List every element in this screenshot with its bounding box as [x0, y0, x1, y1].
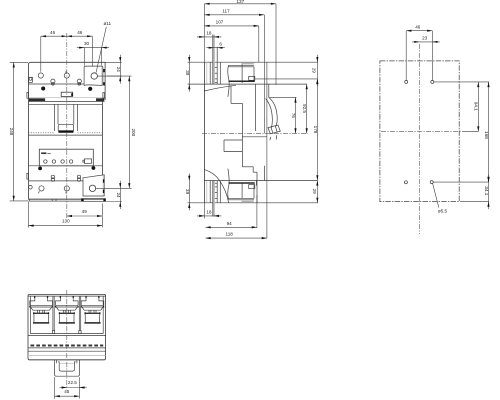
front view: upper terminal screw oval right — [77, 79, 81, 83]
front view: screw dot right — [88, 87, 92, 91]
svg-text:130: 130 — [62, 219, 70, 224]
front view: connector box inner shade — [101, 67, 103, 86]
bottom view: pole 1 hat corner nubs — [34, 296, 35, 298]
svg-text:22.5: 22.5 — [68, 380, 77, 385]
front view: lower-center terminal circle — [64, 186, 69, 191]
bottom view: vertical centerline — [66, 290, 68, 390]
side view: top lug cable squiggle — [228, 65, 229, 97]
front view: extension line 130 left — [28, 202, 30, 228]
drill plan: top hole row extension — [434, 81, 489, 83]
side view: dimension 92.5 — [306, 84, 308, 133]
bottom view: pole 2 lug trapezoid — [56, 307, 77, 310]
front view: trip unit label dashes — [41, 152, 46, 154]
side view: projection line y84 — [188, 83, 307, 85]
svg-text:46: 46 — [77, 30, 83, 35]
side view: bottom case diagonal — [204, 170, 228, 203]
drill plan: dimension 34.1 — [488, 175, 490, 210]
side view: bottom lug clamp block — [249, 185, 255, 189]
front view: dimension 200 — [128, 76, 130, 188]
side view: dimension 107 — [204, 25, 258, 27]
front view: handle recess right walls — [77, 104, 79, 131]
side view: extension line 76 — [270, 96, 297, 98]
bottom view: pole 1 terminal plate lines — [30, 304, 53, 306]
front view: escutcheon bottom line — [29, 134, 103, 136]
bottom view: pole 3 lug trapezoid — [82, 307, 103, 310]
side view: case foot mark — [255, 180, 257, 185]
front view: dimension 49 — [67, 215, 103, 217]
svg-text:24: 24 — [116, 67, 121, 73]
front view: nameplate rectangle — [61, 92, 72, 96]
drill plan: vertical centerline — [419, 44, 421, 234]
bottom view: mid flange line — [28, 350, 106, 352]
side view: dimension 76 — [295, 97, 297, 133]
side view: handle arc inner — [266, 99, 273, 129]
side view: escutcheon front — [268, 84, 270, 97]
drill plan: hole extension lines — [405, 31, 407, 81]
bottom view: outer body rectangle — [28, 294, 106, 359]
front view: dimension 24 bottom right — [119, 181, 121, 209]
drill plan: dimension 46 — [406, 30, 432, 32]
side view: cover front face — [263, 15, 265, 134]
front view: escutcheon top line — [29, 103, 103, 105]
svg-text:45: 45 — [64, 389, 70, 394]
svg-text:107: 107 — [216, 20, 224, 25]
side view: dimension 39 bottom — [188, 174, 190, 211]
front view: bottom foot strip — [30, 199, 82, 201]
bottom view: tongue extension lines — [54, 377, 56, 398]
side view: bottom bracket inner lines — [206, 181, 208, 203]
bottom view: slot inner ledge — [60, 362, 74, 364]
front view: dimension 30 — [77, 47, 109, 49]
side view: back edge — [203, 62, 205, 203]
side view: bottom lug cable squiggle — [228, 169, 229, 200]
front view: extension line 49 right — [101, 204, 103, 228]
front view: left edge screw circle — [29, 185, 33, 189]
svg-text:49: 49 — [82, 209, 88, 214]
bottom view: dimension 22.5 — [59, 387, 87, 389]
side view: case front face 118 — [266, 62, 268, 238]
front view: upper-center terminal circle — [64, 73, 69, 78]
side view: dimension 117 — [204, 14, 264, 16]
svg-text:30: 30 — [84, 41, 90, 46]
side view: bracket ladder bottom — [216, 181, 218, 203]
side view: dimension 178 — [316, 79, 318, 180]
drill plan: dimension 168 — [488, 82, 490, 182]
side view: dimension 18 bottom — [197, 215, 221, 217]
side view: top lug plate lines — [229, 65, 255, 67]
side view: handle grip hatch — [271, 127, 273, 133]
front view: bottom box flange marks — [103, 179, 105, 182]
side view: extension line 107 — [258, 26, 260, 62]
side view: handle grip — [268, 125, 280, 134]
bottom view: pole 1 screw stem — [38, 310, 45, 313]
front view: left edge outer tab upper — [27, 93, 29, 99]
bottom view: right wall line — [102, 296, 104, 334]
drill plan: top-left hole — [405, 80, 408, 83]
front view: trip unit box — [39, 149, 93, 166]
front view: toggle handle grip — [58, 124, 73, 131]
drill plan: dimension 94.1 — [477, 82, 479, 132]
drill plan: horizontal centerline — [381, 131, 462, 133]
svg-text:39: 39 — [185, 70, 190, 76]
bottom view: pole barrier left pair — [52, 296, 54, 330]
front view: bottom right foot — [82, 199, 106, 202]
front view: right edge mid segment — [101, 100, 103, 175]
side view: DIN screw shaft bottom — [213, 181, 215, 217]
front view: screw dot left — [41, 87, 45, 91]
bottom view: handle slot — [58, 362, 76, 371]
side view: top lug clamp block — [249, 76, 255, 80]
bottom view: pole 1 lug trapezoid — [31, 307, 52, 310]
bottom view: lower flange line — [28, 354, 106, 356]
svg-text:46: 46 — [50, 30, 56, 35]
bottom view: pole 3 terminal hat — [81, 296, 104, 305]
svg-text:137: 137 — [236, 0, 244, 4]
front view: trip unit adjustment dial 4 — [69, 160, 72, 163]
side view: case seam step bottom — [242, 166, 253, 168]
side view: bracket ladder top — [216, 47, 218, 84]
svg-text:23: 23 — [422, 36, 428, 41]
side view: top terminal extension line — [255, 78, 317, 80]
side view: dimension 137 — [204, 3, 276, 5]
front view: breaker body outline — [29, 62, 106, 199]
bottom view: pole 2 screw stem — [63, 310, 70, 313]
bottom view: pole 1 screw block — [33, 315, 35, 322]
front view: dimension 130 — [29, 225, 103, 227]
front view: trip unit corner screws — [38, 167, 42, 171]
bottom view: flange line — [28, 335, 106, 337]
front view: trip unit test plug — [84, 159, 91, 163]
front view: left edge outer tab lower — [27, 173, 29, 179]
side view: bottom lug body — [241, 183, 243, 198]
front view: extension lines for 30 — [83, 48, 85, 66]
side view: extension line 137 — [275, 4, 277, 85]
front view: trip unit adjustment dial 1 — [44, 160, 47, 163]
side view: case seam tab — [224, 139, 242, 141]
front view: handle recess left walls — [54, 104, 56, 131]
svg-text:168: 168 — [484, 131, 489, 139]
side view: back mounting extension line — [203, 4, 205, 62]
drill plan: bottom-left hole — [404, 181, 407, 184]
svg-text:76: 76 — [291, 113, 296, 119]
side view: bottom lug gray cap — [241, 201, 253, 203]
front view: left edge upper tab — [29, 77, 33, 82]
svg-text:46: 46 — [415, 25, 421, 30]
side view: bracket outer vertical top — [219, 62, 221, 84]
front view: trip unit lower line — [29, 165, 103, 167]
side view: dimension 29 bottom — [316, 180, 318, 202]
front view: trip unit adjustment dial 2 — [52, 160, 55, 163]
svg-text:94: 94 — [227, 221, 233, 226]
bottom view: pole 2 terminal plate lines — [56, 304, 79, 306]
front view: dimension 46 right — [67, 35, 93, 37]
side view: extension 94 118 — [256, 195, 258, 228]
bottom view: pole 3 hat corner nubs — [85, 296, 86, 298]
svg-text:ø5.5: ø5.5 — [438, 208, 448, 213]
bottom view: lower inner line — [30, 333, 103, 335]
side view: top lug body — [241, 64, 243, 83]
front view: SIEMENS label band — [29, 97, 105, 99]
side view: dimension 118 — [206, 237, 267, 239]
side view: case lower front vertical — [264, 166, 266, 181]
drill plan: centerline extension right — [462, 131, 478, 133]
svg-text:248: 248 — [9, 128, 14, 136]
side view: top lug gray cap — [241, 63, 253, 65]
front view: dimension 248 — [13, 62, 15, 201]
front view: upper terminal screw oval left — [51, 79, 55, 83]
side view: handle grip spurs — [270, 137, 271, 140]
svg-text:6: 6 — [219, 41, 222, 46]
side view: top bracket inner lines — [206, 62, 208, 84]
svg-text:118: 118 — [226, 232, 234, 237]
side view: DIN screw shaft top — [213, 35, 215, 85]
bottom view: vent slot dashes — [31, 345, 104, 347]
side view: top case diagonal — [204, 85, 236, 91]
front view: bottom-right connector box — [83, 175, 104, 196]
front view: terminal hole circle 11mm — [91, 73, 97, 79]
front view: dotted off-position line — [29, 132, 55, 134]
svg-text:117: 117 — [222, 9, 230, 14]
side view: horizontal centerline — [202, 132, 308, 134]
bottom view: pole 1 clamp top bar — [34, 313, 49, 314]
bottom view: handle tongue — [55, 360, 80, 376]
svg-text:29: 29 — [312, 68, 317, 74]
front view: trip unit adjustment dial 3 — [61, 160, 64, 163]
drill plan: outline dash-dot rectangle — [380, 61, 459, 202]
side view: bracket outer vertical bottom — [219, 181, 221, 203]
front view: lower-left terminal circle — [39, 186, 44, 191]
front view: top right extension lines for 24 — [105, 61, 122, 63]
side view: case line below handle — [242, 136, 267, 138]
bottom view: pole 2 hat corner nubs — [60, 296, 61, 298]
bottom view: top inner line — [28, 295, 106, 297]
svg-text:18: 18 — [206, 31, 212, 36]
bottom view: bottom edge emphasis — [28, 359, 105, 361]
svg-text:18: 18 — [206, 210, 212, 215]
drill plan: bottom hole row extension — [433, 181, 489, 183]
front view: lower terminal screw oval right — [77, 175, 80, 178]
bottom view: pole 1 terminal hat — [30, 296, 53, 305]
bottom view: pole 2 clamp top bar — [59, 313, 74, 314]
side view: bottom lug separation thick line — [229, 182, 255, 184]
front view: bottom box inner shade — [102, 175, 104, 195]
bottom view: pole 3 terminal plate lines — [81, 304, 104, 306]
bottom view: pole 3 screw stem — [89, 310, 96, 313]
bottom view: pole barrier right pair — [78, 296, 80, 330]
side view: top lug separation thick line — [229, 80, 255, 82]
svg-text:39: 39 — [185, 189, 190, 195]
front view: terminal area separation line — [29, 83, 85, 85]
bottom view: pole 2 screw block — [59, 315, 61, 322]
side view: top edge line — [188, 61, 318, 63]
front view: lower terminal screw oval left — [51, 175, 54, 178]
side view: dimension 94 — [206, 226, 257, 228]
front view: top-right connector box — [84, 66, 103, 85]
front view: pole extension line right — [91, 36, 93, 66]
front view: dimension 46 left — [41, 35, 67, 37]
svg-text:29: 29 — [312, 189, 317, 195]
front view: upper-left terminal circle — [38, 73, 43, 78]
bottom view: dimension 45 — [55, 395, 80, 397]
svg-text:200: 200 — [131, 128, 136, 136]
svg-text:34.1: 34.1 — [484, 186, 489, 195]
drill plan: bottom edge extension — [460, 201, 489, 203]
bottom view: line below vents — [28, 347, 106, 349]
bottom view: tongue slot ticks — [56, 360, 58, 364]
front view: vertical centerline — [66, 33, 68, 218]
front view: right edge outer tab — [103, 93, 105, 99]
front view: dimension 24 top right — [119, 55, 121, 84]
drill plan: top-right hole — [431, 80, 434, 83]
side view: dimension 29 top — [316, 55, 318, 87]
side view: case front upper — [255, 84, 257, 131]
bottom view: pole 3 clamp top bar — [85, 313, 100, 314]
bottom view: pole 2 screw block bottom bar — [59, 322, 75, 323]
front view: bottom terminal hole circle — [89, 185, 95, 191]
drill plan: dimension 23 — [412, 41, 440, 43]
side view: dimension 18 top — [197, 36, 221, 38]
front view: pole extension line left — [40, 36, 42, 72]
side view: bottom lug plate lines — [229, 197, 255, 199]
front view: extension line 200 bottom — [96, 187, 132, 189]
bottom view: pole 3 screw block — [84, 315, 86, 322]
bottom view: pole 2 terminal hat — [56, 296, 79, 305]
bottom view: left wall line — [29, 296, 31, 334]
front view: lower terminal area top line — [29, 180, 84, 182]
side view: case seam step top — [230, 85, 232, 103]
drill plan: hole diameter 5.5 leader — [433, 183, 439, 207]
side view: dimension 6 — [206, 47, 225, 49]
svg-text:92.5: 92.5 — [302, 104, 307, 113]
svg-text:94.1: 94.1 — [474, 102, 479, 111]
side view: projection line y180 — [204, 179, 317, 181]
svg-text:ø11: ø11 — [104, 21, 112, 26]
side view: dimension 39 top — [188, 55, 190, 92]
front view: connector box flange marks — [103, 69, 105, 72]
front view: handle grip dark base — [58, 130, 73, 132]
side view: bottom edge line — [188, 202, 318, 204]
svg-text:178: 178 — [313, 126, 318, 134]
side view: handle arc outer — [269, 97, 277, 126]
front view: extension for bottom 24 — [106, 201, 123, 203]
front view: extension lines for 248 — [10, 61, 28, 63]
front view: extension line 200 top — [107, 75, 132, 77]
svg-text:24: 24 — [116, 192, 121, 198]
drill plan: bottom-right hole — [430, 181, 433, 184]
bottom view: pole 1 screw block bottom bar — [33, 322, 49, 323]
bottom view: pole 3 screw block bottom bar — [84, 322, 100, 323]
front view: diameter 11 label and leader — [96, 27, 106, 73]
